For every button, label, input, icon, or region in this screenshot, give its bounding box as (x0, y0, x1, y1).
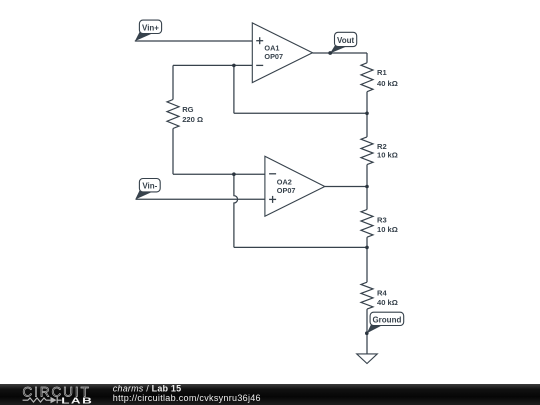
junction node R1 R2 (365, 112, 369, 116)
svg-text:RG: RG (182, 105, 193, 114)
footer bar (0, 384, 540, 405)
svg-text:OP07: OP07 (277, 186, 296, 195)
wire OA1 output (313, 52, 368, 54)
junction node R2 R3 at OA2 output (365, 185, 369, 189)
svg-text:220 Ω: 220 Ω (182, 115, 203, 124)
resistor R2 (361, 137, 373, 165)
op-amp OA2 (265, 156, 325, 216)
svg-text:R3: R3 (377, 216, 387, 225)
wire down to R1 (366, 53, 368, 63)
svg-text:Ground: Ground (372, 315, 401, 324)
wire R4 to ground (366, 309, 368, 354)
svg-text:charms / Lab 15: charms / Lab 15 (113, 383, 182, 393)
net label Vout (328, 32, 356, 55)
wire Vin- to OA2 noninverting input (136, 198, 265, 200)
wire R2 to R3 (366, 165, 368, 210)
wire OA2 output (325, 186, 367, 188)
svg-text:LAB: LAB (61, 397, 93, 405)
junction node at OA1 inverting input (232, 64, 236, 68)
svg-text:Vin+: Vin+ (142, 23, 159, 32)
wire OA2 inverting node down with hop over Vin- wire (234, 174, 238, 247)
wire feedback to R1 R2 junction (234, 112, 367, 114)
wire node A down to RG top (172, 65, 174, 99)
resistor R4 value label (377, 288, 398, 307)
net label Vin+ (135, 20, 162, 41)
svg-text:10 kΩ: 10 kΩ (377, 225, 398, 234)
svg-text:10 kΩ: 10 kΩ (377, 151, 398, 160)
resistor R4 (361, 282, 373, 309)
svg-text:Vout: Vout (337, 36, 355, 45)
net label Ground (365, 312, 404, 335)
wire Vin+ to OA1 noninverting input (135, 40, 253, 42)
resistor RG (167, 100, 179, 129)
junction node at RG and OA2 inverting input (232, 172, 236, 176)
svg-text:R2: R2 (377, 142, 387, 151)
resistor R3 (361, 210, 373, 238)
op-amp OA1 (252, 23, 312, 83)
logo schematic line with resistor and diode (23, 397, 62, 403)
logo diode triangle (51, 397, 57, 403)
wire OA1 inverting input (173, 64, 252, 66)
svg-text:http://circuitlab.com/cvksynru: http://circuitlab.com/cvksynru36j46 (113, 393, 261, 403)
resistor R3 value label (377, 216, 398, 234)
wire R3 to R4 (366, 237, 368, 282)
svg-text:Vin-: Vin- (142, 182, 157, 191)
wire feedback from OA1 inverting node down (233, 65, 235, 113)
svg-text:40 kΩ: 40 kΩ (377, 298, 398, 307)
resistor R1 (361, 63, 373, 92)
resistor R2 value label (377, 142, 398, 160)
svg-text:OP07: OP07 (264, 52, 283, 61)
wire RG bottom to OA2 inverting input (173, 173, 265, 175)
resistor RG value label (182, 105, 203, 124)
svg-text:R1: R1 (377, 68, 387, 77)
svg-text:40 kΩ: 40 kΩ (377, 79, 398, 88)
junction node R3 R4 (365, 246, 369, 250)
wire R1 to R2 (366, 92, 368, 137)
wire to R3 R4 junction (234, 246, 367, 248)
resistor R1 value label (377, 68, 398, 88)
wire RG bottom down (172, 129, 174, 175)
net label Vin- (135, 179, 160, 200)
svg-text:R4: R4 (377, 288, 387, 297)
ground symbol (357, 354, 378, 364)
